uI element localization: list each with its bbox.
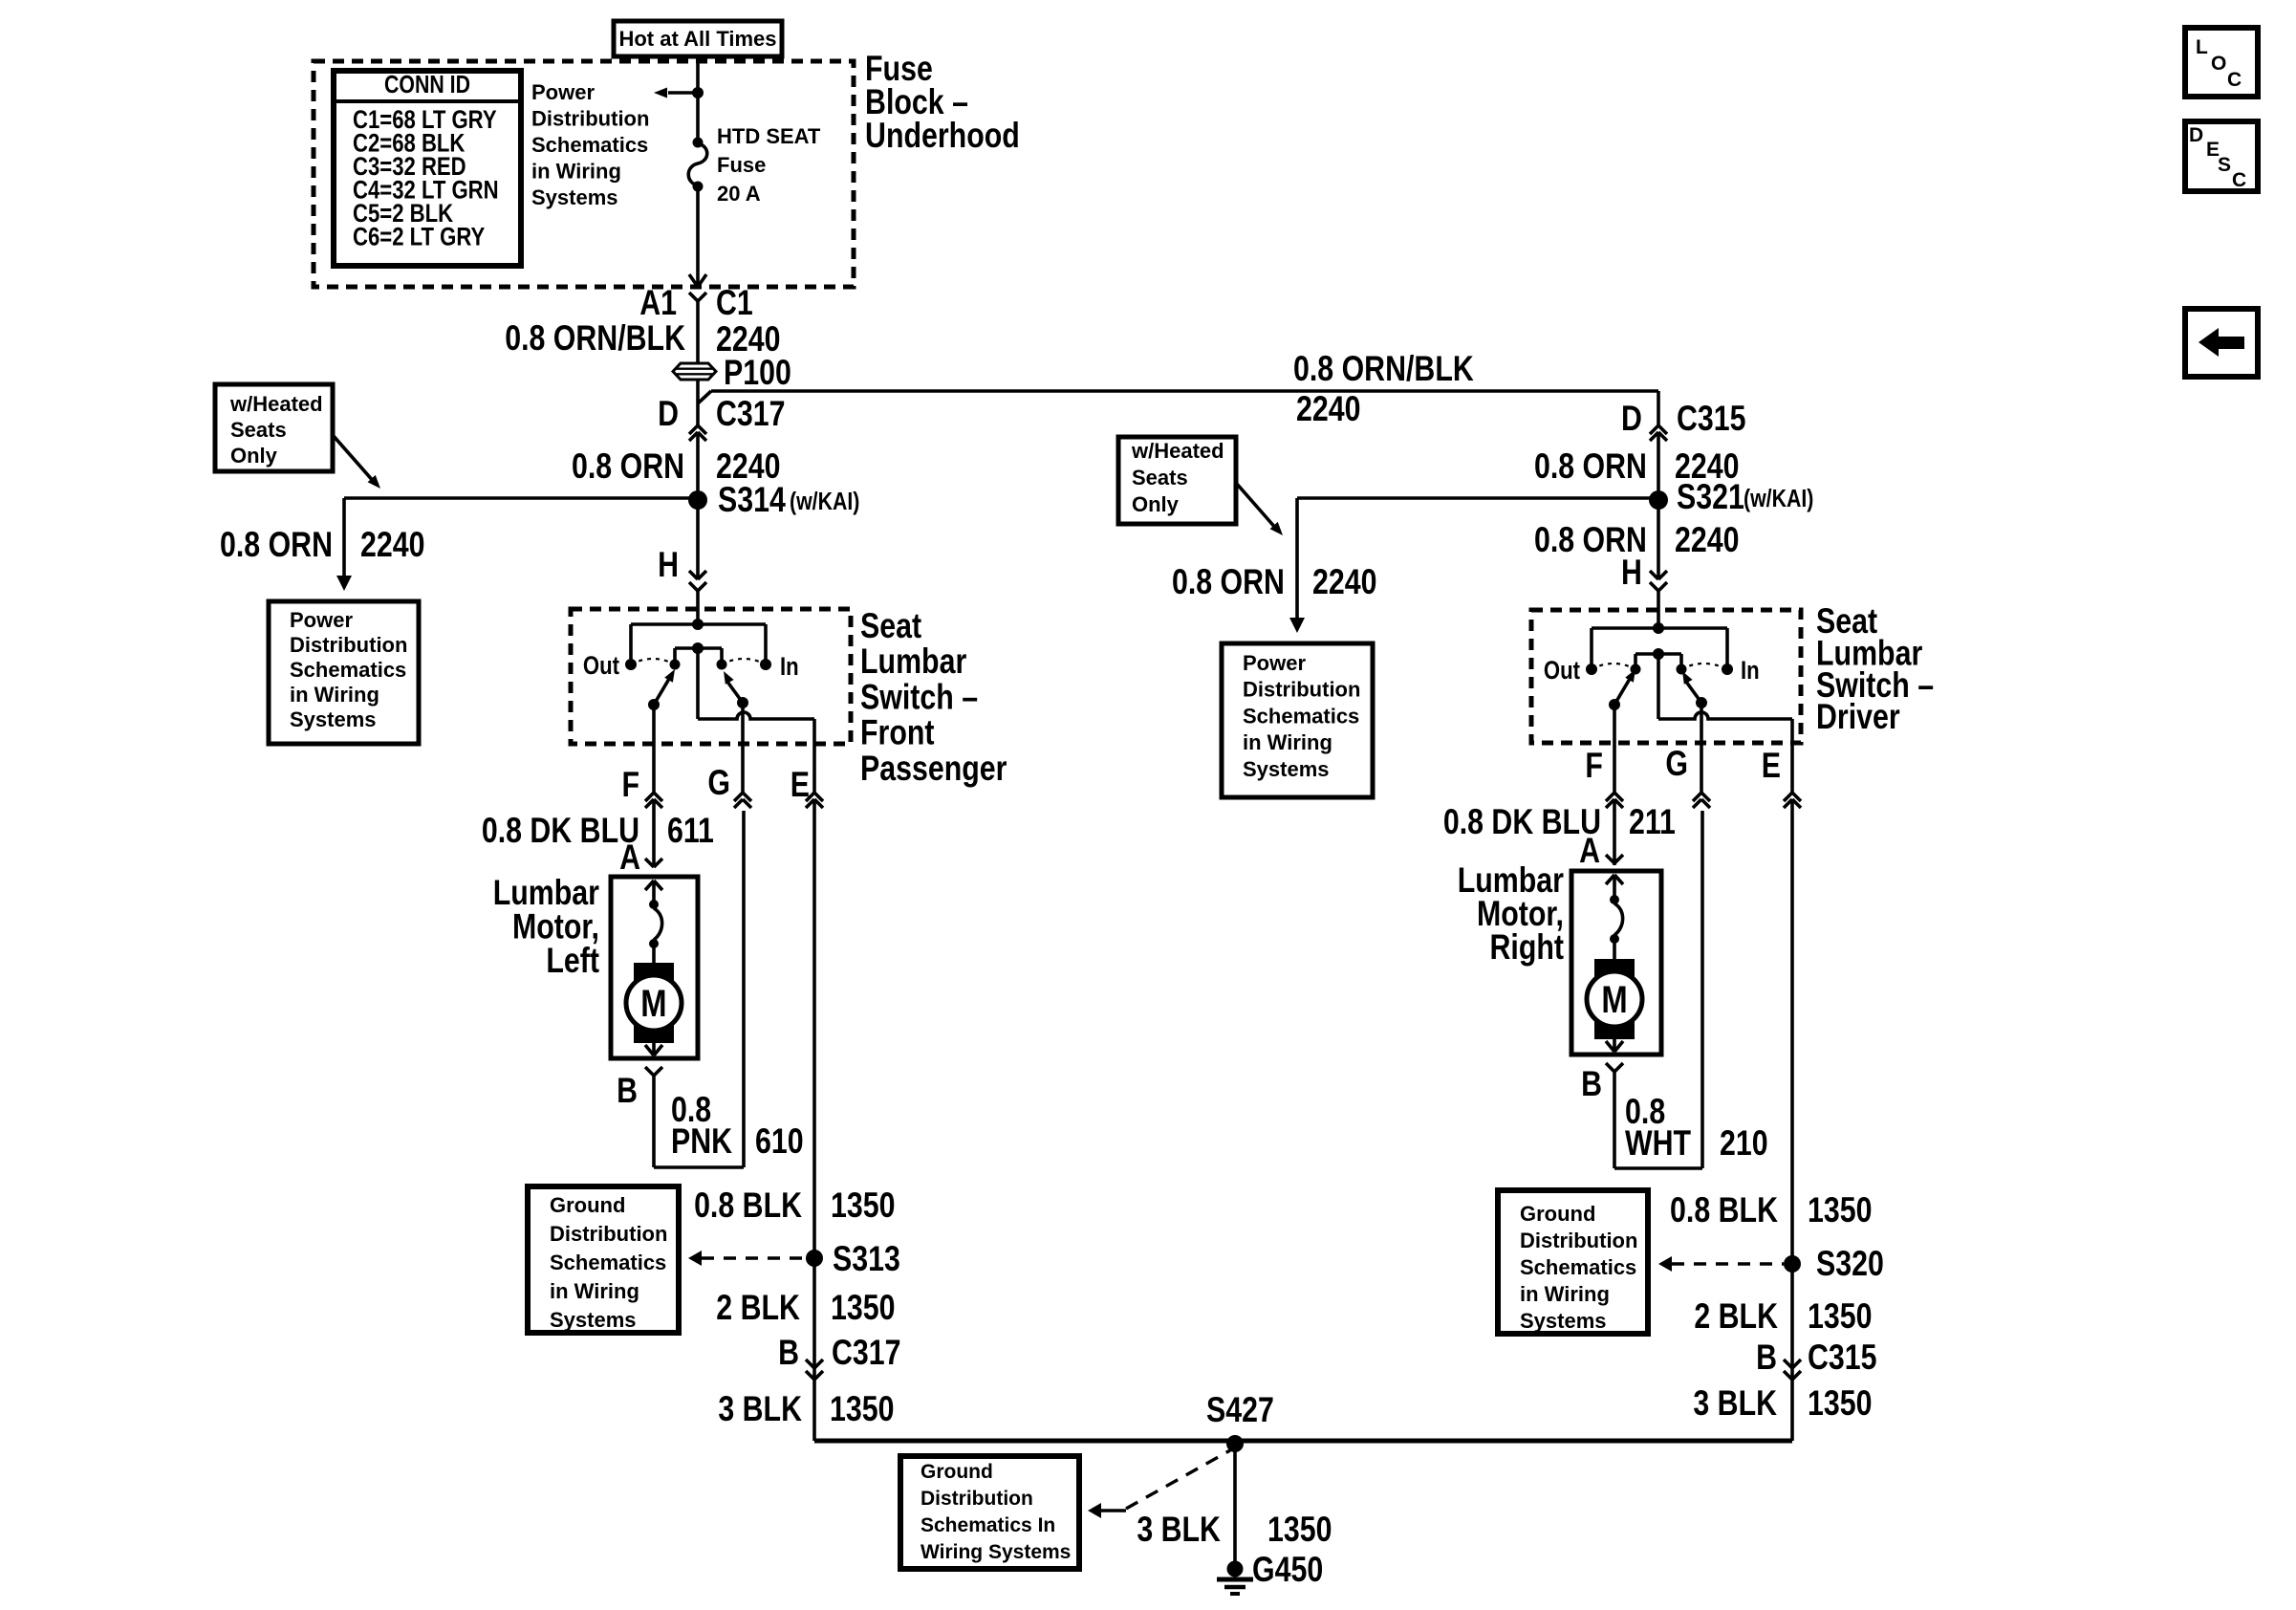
svg-text:O: O (2211, 53, 2226, 75)
svg-text:Seats: Seats (1132, 466, 1188, 490)
svg-text:0.8 DK BLU: 0.8 DK BLU (482, 811, 639, 851)
svg-text:1350: 1350 (1808, 1383, 1872, 1424)
svg-text:C317: C317 (832, 1333, 901, 1373)
svg-text:Hot at All Times: Hot at All Times (618, 27, 776, 51)
svg-text:G: G (707, 763, 730, 803)
svg-text:610: 610 (755, 1121, 804, 1162)
svg-text:211: 211 (1629, 802, 1676, 842)
svg-text:0.8 BLK: 0.8 BLK (1670, 1190, 1778, 1230)
svg-text:Seats: Seats (230, 418, 287, 442)
svg-text:2240: 2240 (1675, 520, 1739, 560)
svg-text:C317: C317 (716, 394, 786, 434)
svg-text:in Wiring: in Wiring (1520, 1282, 1610, 1306)
svg-text:Schematics: Schematics (1520, 1255, 1636, 1279)
svg-text:S427: S427 (1206, 1390, 1274, 1430)
svg-text:F: F (1585, 746, 1603, 786)
svg-text:C: C (2227, 69, 2242, 91)
svg-text:Distribution: Distribution (531, 107, 649, 131)
svg-text:w/Heated: w/Heated (1131, 439, 1224, 463)
svg-text:F: F (622, 765, 640, 805)
svg-text:E: E (1762, 746, 1781, 786)
svg-text:Lumbar: Lumbar (860, 642, 966, 682)
svg-text:0.8 ORN: 0.8 ORN (572, 446, 684, 487)
svg-text:Only: Only (1132, 492, 1180, 516)
svg-text:2 BLK: 2 BLK (716, 1288, 800, 1328)
svg-text:Schematics In: Schematics In (921, 1514, 1055, 1536)
svg-text:P100: P100 (724, 353, 791, 393)
svg-text:Right: Right (1489, 927, 1563, 968)
svg-text:1350: 1350 (830, 1389, 894, 1429)
svg-text:Switch –: Switch – (860, 678, 978, 718)
svg-text:Distribution: Distribution (1243, 678, 1360, 702)
svg-text:2240: 2240 (1296, 389, 1360, 429)
svg-text:in Wiring: in Wiring (550, 1279, 639, 1303)
svg-text:Systems: Systems (290, 707, 377, 731)
svg-text:Distribution: Distribution (290, 633, 407, 657)
svg-text:Distribution: Distribution (550, 1222, 667, 1246)
svg-text:3 BLK: 3 BLK (718, 1389, 802, 1429)
svg-text:C: C (2232, 169, 2246, 191)
svg-text:2 BLK: 2 BLK (1694, 1296, 1778, 1337)
svg-text:WHT: WHT (1625, 1123, 1691, 1164)
svg-text:3 BLK: 3 BLK (1137, 1510, 1221, 1550)
svg-text:Schematics: Schematics (290, 658, 406, 682)
svg-text:In: In (780, 653, 799, 682)
svg-text:Systems: Systems (1243, 757, 1330, 781)
svg-text:3 BLK: 3 BLK (1693, 1383, 1777, 1424)
svg-text:1350: 1350 (831, 1186, 895, 1226)
svg-text:D: D (1621, 399, 1642, 439)
svg-text:0.8 ORN/BLK: 0.8 ORN/BLK (505, 318, 685, 359)
svg-text:Power: Power (1243, 651, 1306, 675)
svg-text:S314: S314 (718, 480, 786, 520)
svg-text:C315: C315 (1808, 1338, 1877, 1378)
svg-text:Out: Out (1544, 657, 1580, 685)
svg-text:Fuse: Fuse (717, 153, 766, 177)
svg-text:0.8 ORN: 0.8 ORN (220, 525, 333, 565)
svg-text:A1: A1 (639, 283, 677, 323)
svg-text:Ground: Ground (1520, 1202, 1595, 1226)
svg-text:S321: S321 (1677, 477, 1744, 517)
svg-text:Front: Front (860, 713, 934, 753)
svg-text:CONN ID: CONN ID (384, 71, 470, 99)
svg-text:(w/KAI): (w/KAI) (1744, 485, 1813, 513)
svg-text:Power: Power (290, 608, 353, 632)
svg-text:1350: 1350 (831, 1288, 895, 1328)
svg-text:Ground: Ground (550, 1193, 625, 1217)
svg-text:Seat: Seat (860, 606, 921, 646)
svg-text:Distribution: Distribution (1520, 1229, 1637, 1252)
svg-text:Passenger: Passenger (860, 749, 1007, 789)
svg-text:Only: Only (230, 444, 278, 468)
svg-text:Schematics: Schematics (550, 1251, 666, 1274)
svg-text:Systems: Systems (550, 1308, 637, 1332)
svg-text:2240: 2240 (360, 525, 424, 565)
svg-text:Left: Left (546, 941, 599, 981)
svg-text:E: E (791, 765, 810, 805)
svg-text:(w/KAI): (w/KAI) (790, 488, 859, 516)
svg-text:C6=2 LT GRY: C6=2 LT GRY (353, 224, 486, 252)
svg-text:Schematics: Schematics (1243, 704, 1359, 728)
svg-text:0.8 ORN/BLK: 0.8 ORN/BLK (1293, 349, 1474, 389)
svg-text:Power: Power (531, 80, 595, 104)
svg-text:Driver: Driver (1816, 697, 1900, 737)
svg-text:B: B (1756, 1338, 1777, 1378)
svg-text:B: B (617, 1071, 638, 1111)
svg-text:C315: C315 (1677, 399, 1746, 439)
svg-text:210: 210 (1720, 1123, 1768, 1164)
svg-text:HTD SEAT: HTD SEAT (717, 124, 821, 148)
svg-text:in Wiring: in Wiring (290, 683, 379, 707)
svg-text:PNK: PNK (671, 1121, 733, 1162)
svg-text:H: H (658, 545, 679, 585)
svg-text:A: A (619, 838, 640, 878)
svg-text:M: M (1601, 978, 1627, 1021)
svg-text:D: D (2189, 124, 2203, 146)
svg-text:L: L (2196, 36, 2208, 58)
svg-text:C1: C1 (716, 283, 753, 323)
svg-text:Systems: Systems (531, 185, 618, 209)
svg-text:H: H (1621, 553, 1642, 593)
svg-text:In: In (1741, 657, 1760, 685)
svg-text:Schematics: Schematics (531, 133, 648, 157)
svg-text:0.8 BLK: 0.8 BLK (694, 1186, 802, 1226)
svg-text:1350: 1350 (1808, 1296, 1872, 1337)
svg-text:0.8 ORN: 0.8 ORN (1172, 562, 1285, 602)
svg-text:A: A (1579, 831, 1600, 871)
svg-text:20 A: 20 A (717, 182, 761, 206)
svg-text:Wiring Systems: Wiring Systems (921, 1541, 1071, 1563)
svg-text:S313: S313 (833, 1239, 900, 1279)
svg-text:Systems: Systems (1520, 1309, 1607, 1333)
svg-text:2240: 2240 (1312, 562, 1376, 602)
svg-text:0.8 ORN: 0.8 ORN (1534, 446, 1647, 487)
svg-text:S320: S320 (1816, 1244, 1884, 1284)
svg-text:D: D (658, 394, 679, 434)
svg-text:1350: 1350 (1808, 1190, 1872, 1230)
svg-text:Ground: Ground (921, 1461, 993, 1483)
svg-text:B: B (778, 1333, 799, 1373)
svg-text:M: M (640, 982, 666, 1025)
svg-text:611: 611 (667, 811, 714, 851)
svg-text:in Wiring: in Wiring (1243, 730, 1332, 754)
svg-text:w/Heated: w/Heated (229, 392, 323, 416)
svg-text:Distribution: Distribution (921, 1488, 1033, 1510)
svg-text:S: S (2218, 154, 2231, 176)
svg-text:Underhood: Underhood (865, 116, 1020, 156)
svg-text:in Wiring: in Wiring (531, 160, 621, 184)
svg-text:0.8 DK BLU: 0.8 DK BLU (1443, 802, 1601, 842)
svg-text:B: B (1581, 1064, 1602, 1104)
svg-text:Out: Out (583, 652, 619, 681)
svg-text:G450: G450 (1252, 1550, 1323, 1590)
svg-text:G: G (1665, 744, 1688, 784)
svg-text:1350: 1350 (1267, 1510, 1332, 1550)
